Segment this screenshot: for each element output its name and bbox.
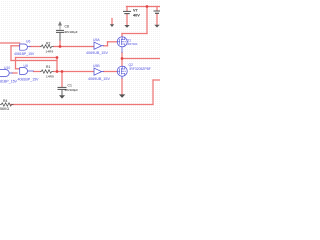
svg-text:IRF7404: IRF7404 — [127, 42, 138, 46]
svg-text:4081BP_15V: 4081BP_15V — [14, 52, 35, 56]
svg-text:R4: R4 — [3, 99, 7, 103]
svg-text:IRF3205ZPBF: IRF3205ZPBF — [130, 67, 151, 71]
svg-text:R2: R2 — [46, 41, 50, 45]
svg-text:C1: C1 — [68, 83, 72, 87]
svg-text:C8: C8 — [65, 25, 69, 29]
svg-text:14R9: 14R9 — [46, 49, 54, 53]
svg-text:4069UB_15V: 4069UB_15V — [88, 77, 110, 81]
svg-text:R1: R1 — [46, 65, 50, 69]
svg-text:40V: 40V — [133, 13, 140, 17]
svg-text:56KΩ: 56KΩ — [0, 107, 9, 111]
svg-text:U5A: U5A — [93, 38, 100, 42]
svg-text:U10: U10 — [4, 66, 10, 70]
svg-text:4081BP_15V: 4081BP_15V — [18, 78, 40, 82]
svg-text:4081BP_15V: 4081BP_15V — [0, 79, 18, 83]
svg-text:14R9: 14R9 — [46, 74, 54, 78]
svg-text:40V100µF: 40V100µF — [64, 30, 78, 34]
svg-text:40V100µF: 40V100µF — [65, 88, 79, 92]
svg-text:V7: V7 — [133, 8, 138, 12]
svg-text:U6: U6 — [26, 40, 30, 44]
svg-text:U5B: U5B — [93, 64, 100, 68]
svg-text:U8: U8 — [24, 64, 28, 68]
svg-text:4069UB_15V: 4069UB_15V — [86, 51, 108, 55]
